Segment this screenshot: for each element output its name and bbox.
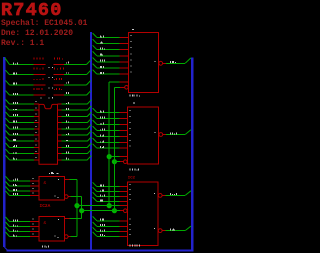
wire net A1 from bus B1 through gap pins to bus B2 [6,68,91,79]
wire net D4 from bus B1 to IC4 left pin 5 [6,124,40,129]
wire: IC2A output to vertical Vb [71,197,82,219]
wire net from bus B2 to IC1 input pin row 7 [93,70,132,74]
svg-text:&: & [44,180,47,186]
wire net from bus B2 to IC3 input pin row 5 [93,216,131,220]
wire net Q4 from IC4 right pin to bus B2 [58,125,92,129]
IC2B value label [42,246,49,248]
svg-text:&: & [44,220,47,226]
output wire from IC3 inverted output to bus B3 [154,226,191,232]
wire net from bus B2 to IC3 input pin row 4 [93,197,131,201]
wire net from bus B2 to IC2 input pin row 3 [93,120,131,124]
IC1 OE bubble pin wire from vertical V2 [114,86,128,90]
svg-text:R7460: R7460 [1,0,63,21]
wire net from bus B1 to IC2A input 1 [6,176,40,181]
wire net D3 from bus B1 to IC4 left pin 4 [6,118,40,123]
wire net Q8 from IC4 right pin to bus B2 [58,149,92,153]
wire net from bus B1 to IC2B input 4 [6,232,40,237]
IC2 value label [130,169,139,171]
svg-text:Dne: 12.01.2020: Dne: 12.01.2020 [1,29,73,38]
wire net Q9 from IC4 right pin to bus B2 [58,156,92,160]
wire net from bus B2 to IC2 input pin row 7 [93,144,131,148]
white specks above IC4 [41,98,42,99]
svg-text:IC2A: IC2A [40,203,51,209]
wire net from bus B2 to IC3 input pin row 2 [93,187,131,191]
wire net from bus B2 to IC2 input pin row 4 [93,126,131,130]
wire net from bus B2 to IC3 input pin row 6 [93,222,131,226]
wire net Q6 from IC4 right pin to bus B2 [58,137,92,141]
bus B1 left vertical with chamfer corner [3,57,5,247]
vertical net V1 linking IC1/IC2/IC3 clock pins [108,82,110,206]
wire net from bus B2 to IC1 input pin row 6 [93,64,132,68]
white specks inside IC2B [55,235,56,236]
IC4 value label [49,172,54,174]
wire net from bus B2 to IC3 input pin row 7 [93,227,131,231]
wire net across bus to IC3 OE (y210.7) [82,210,115,212]
wire net from bus B1 to IC2B input 3 [6,227,40,232]
svg-text:IC2: IC2 [128,176,136,180]
wire net from bus B2 to IC2 input pin row 6 [93,138,131,142]
wire: IC2A top pin down vertical Va [69,180,77,237]
wire net Q5 from IC4 right pin to bus B2 [58,131,92,135]
white specks inside IC2A [55,195,56,196]
wire net from bus B2 to IC1 input pin row 5 [93,58,132,62]
IC2A body rectangle [39,176,64,200]
IC1 value label [130,95,140,97]
white speck above IC2 [133,103,135,104]
IC3 value label [130,245,140,247]
IC3 body rectangle [127,182,158,246]
IC2A output bubble pin [65,195,71,199]
wire net from bus B1 to IC2A input 3 [6,187,40,192]
IC1 body rectangle [129,33,159,93]
IC3 clock pin wire with junction on V1 [107,203,128,208]
wire net D9 from bus B1 to IC4 left pin 10 [6,155,40,160]
wire net from bus B1 to IC2A input 4 [6,191,40,196]
white speck above IC1 [132,29,134,30]
IC2 clock pin wire with junction on V1 [107,154,128,159]
svg-text:Rev.: 1.1: Rev.: 1.1 [1,39,44,48]
wire net from bus B1 to IC2A input 2 [6,182,40,187]
wire net A0 from bus B1 through gap pins to bus B2 [5,58,91,69]
wire net from bus B2 to IC2 input pin row 5 [93,132,131,136]
svg-text:Spechal: EC1045.01: Spechal: EC1045.01 [1,19,88,28]
IC2A top-right pin [64,179,69,181]
wire net from bus B2 to IC3 input pin row 3 [93,192,131,196]
wire net D0 from bus B1 to IC4 left pin 1 [6,100,40,105]
output wire from IC2 inverted output to bus B3 [155,130,191,137]
output wire from IC1 inverted output to bus B3 [155,58,191,65]
wire net D1 from bus B1 to IC4 left pin 2 [6,106,40,111]
wire net D8 from bus B1 to IC4 left pin 9 [6,149,40,154]
IC4 middle DIP symbol body with notch [39,104,58,164]
IC3 OE bubble pin wire with junction on V2 [112,208,127,213]
wire net across bus to IC3 clock (y205.6) [77,205,109,207]
wire net D6 from bus B1 to IC4 left pin 7 [6,137,40,142]
IC2B output bubble pin [65,235,71,239]
bus B2 middle vertical [90,32,92,251]
wire net from bus B2 to IC1 input pin row 1 [93,33,132,37]
wire net from bus B1 to IC2B input 2 [6,222,40,227]
wire net Q3 from IC4 right pin to bus B2 [58,118,92,122]
wire net Q2 from IC4 right pin to bus B2 [58,112,92,116]
IC2B body rectangle [39,216,64,241]
wire: IC2B output to vertical Va [71,236,77,238]
wire: IC2B top pin to vertical Vb [69,217,81,219]
wire net from bus B2 to IC2 input pin row 1 [93,108,131,112]
wire net D7 from bus B1 to IC4 left pin 8 [6,143,40,148]
IC2 OE bubble pin wire with junction on V2 [112,159,127,164]
vertical net V2 linking IC1/IC2/IC3 OE pins [113,87,115,210]
wire net D5 from bus B1 to IC4 left pin 6 [6,131,40,136]
wire net Q1 from IC4 right pin to bus B2 [58,106,92,110]
wire net from bus B1 to IC2B input 1 [6,217,40,222]
junction dot on Va [74,203,79,208]
wire net from bus B2 to IC3 input pin row 8 [93,232,131,236]
wire net from bus B2 to IC1 input pin row 2 [93,39,132,43]
IC2 body rectangle [127,107,158,164]
wire net A3 from bus B1 through gap pins to bus B2 [6,88,91,99]
output wire from IC3 inverted output to bus B3 [154,191,191,198]
wire net from bus B2 to IC3 input pin row 1 [93,182,131,186]
junction dot on Vb [79,208,84,213]
wire net from bus B2 to IC1 input pin row 4 [93,51,132,55]
IC2B top-right pin [64,217,69,219]
wire net from bus B2 to IC1 input pin row 3 [93,45,132,49]
white speck above gate IC2A [57,173,59,174]
wire net D2 from bus B1 to IC4 left pin 3 [6,112,40,117]
wire net from bus B2 to IC2 input pin row 2 [93,114,131,118]
bus B3 right vertical [191,58,193,252]
bus B4 bottom horizontal [7,249,194,251]
wire net A2 from bus B1 through gap pins to bus B2 [6,78,91,89]
IC1 clock pin wire from vertical V1 [109,81,128,83]
wire net Q0 from IC4 right pin to bus B2 [58,100,92,104]
wire net Q7 from IC4 right pin to bus B2 [58,143,92,147]
